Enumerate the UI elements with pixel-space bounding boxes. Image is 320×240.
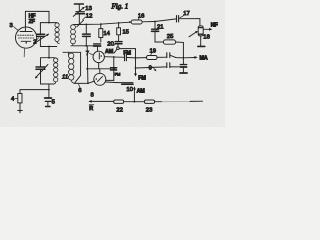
svg-text:13: 13 [85, 6, 92, 12]
resistor R25 (horizontal) [155, 40, 183, 58]
resistor R14 (vertical) [99, 24, 103, 42]
label 17 with arrow [180, 11, 190, 18]
coil LB (secondary of 11) [69, 52, 74, 83]
svg-text:22: 22 [116, 108, 123, 114]
svg-text:ZF: ZF [29, 19, 36, 25]
link wire tank1 bottom to tank2 top [48, 47, 50, 58]
switch S6 blade [75, 75, 81, 82]
label 9 with arrow [149, 66, 157, 72]
wire L2 bottom to C-fm bottom [73, 45, 86, 47]
MA output arrow [183, 56, 198, 59]
svg-text:23: 23 [146, 108, 153, 114]
FM tank2 (middle) frame [41, 58, 54, 67]
tube V7 [93, 51, 104, 62]
svg-text:FM: FM [115, 72, 121, 77]
potentiometer P18 [198, 26, 205, 47]
arrow across C13 [73, 7, 84, 16]
coil L1 (right edge of tank 1) [55, 23, 59, 44]
label 19 with arrow [150, 48, 157, 54]
label 7 with arrow [86, 51, 93, 57]
svg-text:17: 17 [183, 11, 190, 17]
switch contacts (AM/FM) upper [167, 53, 170, 58]
svg-text:AM: AM [137, 89, 146, 95]
bottom rail to right (partly faded in scan) [155, 101, 162, 103]
AM arrow up from bottom rail [133, 86, 136, 101]
svg-text:AM: AM [105, 49, 114, 55]
arrow across tank2 [35, 65, 48, 79]
tube8 top stub [99, 69, 101, 74]
capacitor C2 (variable, in left edge of tank 1) [37, 34, 45, 36]
tube8 right wire [106, 79, 114, 81]
svg-text:15: 15 [122, 29, 129, 35]
resistor R16 (horizontal, in rail) [131, 20, 155, 24]
top rail (FM tank top to right) [73, 22, 131, 25]
junction dot at R4 branch [48, 89, 50, 91]
tube V3 [16, 27, 37, 48]
svg-text:18: 18 [203, 35, 210, 41]
antenna bar / C13 variable cap [74, 4, 84, 24]
cap C21 below rail [152, 21, 159, 42]
label 4 with arrow [11, 97, 18, 103]
tube V8 [94, 73, 106, 85]
label 16 with arrow [138, 13, 145, 19]
wire LB top hook to switch 6 vertical [63, 52, 81, 75]
resistor R23 [144, 100, 154, 103]
junction dot [85, 45, 87, 47]
NF output [203, 28, 212, 31]
svg-text:14: 14 [103, 31, 110, 37]
cathode lead of tube3 [23, 48, 25, 57]
wire anode of tube3 to top corner [25, 11, 49, 27]
rail junction dots [85, 24, 87, 26]
svg-text:25: 25 [167, 34, 174, 40]
wire between tubes (y=68.8) [87, 68, 110, 70]
label 6 with arrow [78, 84, 82, 94]
svg-text:9: 9 [149, 66, 152, 72]
vertical FM distribution at x135.5 [135, 49, 137, 75]
coil L2 (FM secondary) [71, 25, 76, 46]
svg-text:R: R [89, 106, 93, 112]
svg-text:11: 11 [62, 75, 68, 81]
wiper arrow [189, 31, 198, 37]
rail right segment with series cap C17 [155, 19, 176, 22]
label 12 with arrow [83, 14, 93, 20]
vertical bus left of tubes [86, 46, 89, 83]
grid wire tube3 to capacitor C2 [37, 33, 39, 35]
vertical x113.8 [113, 57, 115, 81]
wire lower AM branch [136, 67, 167, 68]
bottom return line with arrow R [88, 100, 113, 103]
cap C10 + AM takeoff [106, 82, 134, 84]
trimmer arrow across C2 [35, 34, 49, 43]
svg-text:21: 21 [157, 24, 164, 30]
resistor R15 (vertical) [117, 23, 121, 41]
wire tube7 right with series cap [104, 56, 124, 59]
FM takeoff contact + wire [117, 47, 120, 50]
label 2 with arrow [33, 38, 38, 46]
label 3 [10, 23, 18, 30]
cap C24 to ground under MA line [180, 58, 187, 73]
tank circuit 1 frame (cap branch + top/bottom wires) [40, 23, 56, 34]
wire between R22 and R23 [124, 101, 145, 103]
coupling cap above tube7 [94, 44, 101, 51]
label 20 [107, 41, 116, 47]
svg-text:Fig. 1: Fig. 1 [111, 2, 129, 10]
resistor R19 (horizontal) [136, 56, 167, 60]
svg-text:10: 10 [126, 87, 133, 93]
cap C20 under R15 [115, 42, 122, 44]
junction dot bottom of tank1 [48, 46, 50, 48]
wire to grid cap of tube7 chain [86, 45, 96, 47]
resistor R22 [114, 100, 124, 103]
coil LA (tank2 right edge) [54, 58, 58, 84]
svg-text:20: 20 [107, 41, 114, 47]
cap C5 and ground under tank2 [45, 84, 52, 107]
capacitor C-fm (across FM tank, rail to bottom wire) [83, 24, 91, 45]
wire LB bottom to tube8 [74, 81, 95, 83]
resistor R4 (vertical) with + terminal [18, 90, 49, 113]
svg-text:12: 12 [86, 14, 93, 20]
svg-text:NF: NF [211, 23, 219, 29]
series cap blob at x113.5 [111, 68, 117, 70]
cap in left edge of tank2 [36, 67, 45, 69]
svg-text:MA: MA [200, 55, 208, 61]
label R with overline [89, 105, 94, 112]
junction dot top of tank1 [48, 22, 50, 24]
tube7 bottom stub [98, 63, 100, 69]
svg-text:19: 19 [150, 48, 157, 54]
svg-text:FM: FM [138, 75, 146, 81]
switch S12 blade [77, 20, 84, 27]
